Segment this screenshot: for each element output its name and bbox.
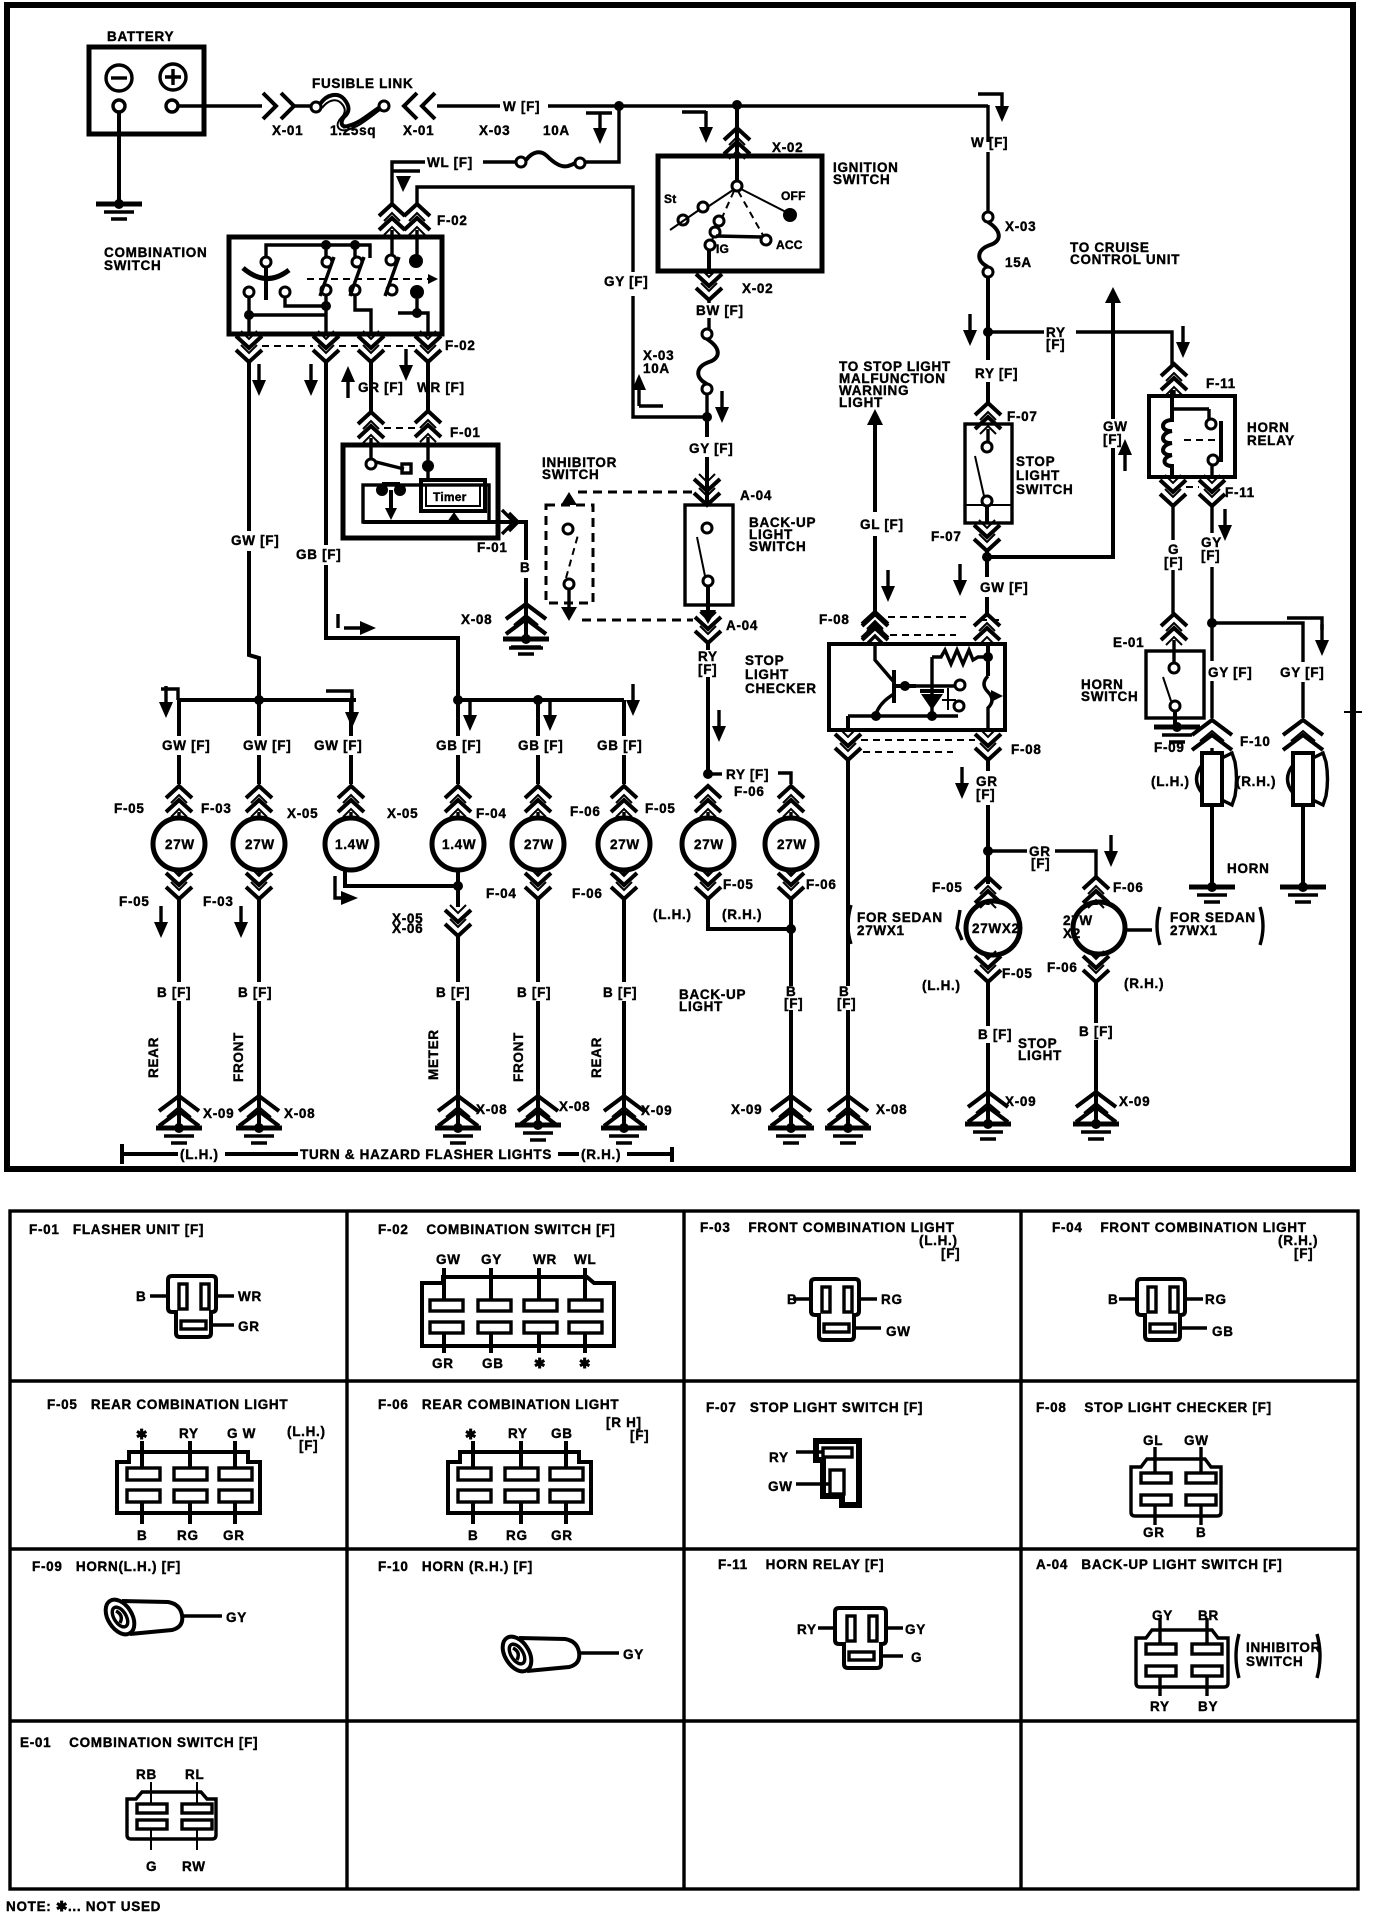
svg-text:X-08: X-08 (876, 1102, 907, 1117)
svg-text:GY: GY (226, 1610, 247, 1625)
svg-text:TURN & HAZARD FLASHER LIGHTS: TURN & HAZARD FLASHER LIGHTS (300, 1147, 552, 1162)
svg-text:GY [F]: GY [F] (1208, 665, 1252, 680)
svg-text:F-05: F-05 (932, 880, 963, 895)
svg-text:X-05: X-05 (387, 806, 418, 821)
G wire (1171, 504, 1174, 614)
svg-text:SWITCH: SWITCH (1016, 482, 1073, 497)
svg-text:B [F]: B [F] (157, 985, 191, 1000)
svg-text:RG: RG (177, 1528, 199, 1543)
svg-text:NOTE: ✱... NOT USED: NOTE: ✱... NOT USED (6, 1899, 161, 1912)
svg-text:F-01: F-01 (450, 425, 481, 440)
svg-text:27W: 27W (694, 837, 724, 852)
svg-text:STOP: STOP (745, 653, 784, 668)
svg-text:LIGHT: LIGHT (1016, 468, 1060, 483)
battery ground wire (117, 112, 121, 204)
svg-text:RL: RL (185, 1767, 204, 1782)
connector F-06 drawing (448, 1441, 591, 1524)
svg-text:F-06: F-06 (570, 804, 601, 819)
lamp meter LH 1.4W (325, 818, 377, 870)
svg-text:F-10 HORN (R.H.) [F]: F-10 HORN (R.H.) [F] (378, 1559, 533, 1574)
wire out bottom (707, 250, 711, 274)
svg-text:RY: RY (1150, 1699, 1170, 1714)
svg-text:27WX2: 27WX2 (972, 921, 1020, 936)
svg-text:X2: X2 (1063, 926, 1081, 941)
svg-text:B [F]: B [F] (603, 985, 637, 1000)
chevrons below (708, 870, 791, 876)
svg-text:GR [F]: GR [F] (358, 380, 403, 395)
exits to bottom (249, 315, 326, 334)
svg-text:LIGHT: LIGHT (839, 395, 883, 410)
svg-text:X-05: X-05 (287, 806, 318, 821)
svg-text:WR [F]: WR [F] (417, 380, 465, 395)
svg-text:F-05: F-05 (723, 877, 754, 892)
svg-text:F-11: F-11 (1206, 376, 1236, 391)
flow arrow below WL corner (392, 169, 420, 172)
lamp meter RH 1.4W (432, 818, 484, 870)
flow arrow up near corner (639, 404, 663, 407)
fusible link (311, 102, 321, 112)
svg-text:B [F]: B [F] (238, 985, 272, 1000)
svg-text:G W: G W (227, 1426, 256, 1441)
svg-text:W [F]: W [F] (503, 99, 540, 114)
svg-text:GY [F]: GY [F] (689, 441, 733, 456)
diode (916, 657, 956, 686)
battery box (89, 47, 204, 134)
svg-text:ACC: ACC (776, 238, 803, 252)
checker box (829, 644, 1005, 730)
lever (243, 268, 289, 279)
connector F-08 drawing (1131, 1447, 1221, 1525)
svg-text:X-08: X-08 (461, 612, 492, 627)
svg-text:A-04: A-04 (726, 618, 758, 633)
svg-text:STOP: STOP (1016, 454, 1055, 469)
svg-text:GW: GW (436, 1252, 461, 1267)
svg-text:SWITCH: SWITCH (542, 467, 599, 482)
svg-text:GR: GR (432, 1356, 454, 1371)
svg-text:RY: RY (179, 1426, 199, 1441)
connector F-05 drawing (117, 1441, 260, 1524)
svg-text:27WX1: 27WX1 (1170, 923, 1218, 938)
X-01 chevron right (263, 93, 294, 119)
right bus GB (458, 700, 624, 784)
svg-text:F-04: F-04 (476, 806, 507, 821)
below chevrons (988, 954, 1096, 958)
svg-text:GW: GW (768, 1479, 793, 1494)
right glyph (984, 676, 992, 730)
svg-text:[F]: [F] (1164, 555, 1183, 570)
svg-text:F-05: F-05 (645, 801, 676, 816)
timer box (421, 480, 485, 511)
svg-text:F-07 STOP LIGHT SWITCH [F]: F-07 STOP LIGHT SWITCH [F] (706, 1400, 923, 1415)
svg-text:BW [F]: BW [F] (696, 303, 744, 318)
svg-text:RG: RG (1205, 1292, 1227, 1307)
svg-text:[F]: [F] (698, 662, 717, 677)
wire WL fuse to corner (483, 160, 516, 163)
svg-text:[F]: [F] (976, 787, 995, 802)
svg-text:27W: 27W (777, 837, 807, 852)
B wire to ground (846, 758, 850, 1085)
svg-text:LIGHT: LIGHT (745, 667, 789, 682)
svg-text:W [F]: W [F] (971, 135, 1008, 150)
svg-text:✱: ✱ (534, 1356, 546, 1371)
connector E-01 drawing (127, 1782, 216, 1850)
ground stop RH X-09 (1189, 882, 1235, 902)
svg-text:B [F]: B [F] (517, 985, 551, 1000)
schematic outer border (7, 5, 1353, 1169)
svg-text:F-06: F-06 (572, 886, 603, 901)
svg-text:X-01: X-01 (272, 123, 303, 138)
GR wire down (986, 758, 990, 884)
ground flasher X-08 (503, 634, 549, 654)
svg-text:B: B (787, 1292, 797, 1307)
wire W to junction (548, 104, 988, 107)
svg-text:GY: GY (481, 1252, 502, 1267)
svg-text:X-02: X-02 (742, 281, 773, 296)
svg-text:RY: RY (508, 1426, 528, 1441)
svg-text:F-10: F-10 (1240, 734, 1271, 749)
wires down (179, 870, 624, 1095)
svg-text:[F]: [F] (837, 996, 856, 1011)
svg-text:F-06: F-06 (1047, 960, 1078, 975)
svg-text:SWITCH: SWITCH (1246, 1654, 1303, 1669)
svg-text:(R.H.): (R.H.) (581, 1147, 621, 1162)
flasher coil (376, 484, 388, 496)
svg-text:GY [F]: GY [F] (604, 274, 648, 289)
contact circles bottom (244, 287, 254, 297)
svg-text:Timer: Timer (433, 490, 467, 504)
chevrons below cols 1 2 5 6 (179, 870, 624, 876)
grounds (159, 1096, 199, 1126)
lamp turn front RH 27W (512, 818, 564, 870)
svg-text:GY: GY (905, 1622, 926, 1637)
svg-text:X-06: X-06 (392, 921, 423, 936)
node RY junction (703, 769, 713, 779)
bottom bus (848, 714, 958, 717)
svg-text:B [F]: B [F] (436, 985, 470, 1000)
svg-text:GB [F]: GB [F] (296, 547, 341, 562)
svg-text:F-07: F-07 (1007, 409, 1038, 424)
flow arrow hook left of junction (586, 111, 612, 114)
horn icon F-10 (497, 1632, 580, 1677)
svg-text:X-08: X-08 (559, 1099, 590, 1114)
svg-text:[F]: [F] (941, 1246, 960, 1261)
svg-text:GW [F]: GW [F] (231, 533, 279, 548)
svg-text:✱: ✱ (465, 1427, 477, 1442)
svg-text:(L.H.): (L.H.) (287, 1424, 326, 1439)
chevron right on output (502, 510, 518, 534)
svg-text:X-09: X-09 (1119, 1094, 1150, 1109)
bottom interconnects (244, 310, 254, 320)
svg-text:F-05: F-05 (1002, 966, 1033, 981)
svg-text:BR: BR (1198, 1608, 1219, 1623)
svg-text:✱: ✱ (579, 1356, 591, 1371)
svg-text:[F]: [F] (1103, 432, 1122, 447)
svg-text:B: B (136, 1289, 146, 1304)
svg-text:F-02 COMBINATION SWITCH [F]: F-02 COMBINATION SWITCH [F] (378, 1222, 615, 1237)
svg-text:F-02: F-02 (445, 338, 476, 353)
svg-text:GY: GY (623, 1647, 644, 1662)
svg-text:1.4W: 1.4W (335, 837, 369, 852)
X-01 chevron left (404, 93, 435, 119)
horn switch box (1146, 651, 1204, 718)
svg-text:INHIBITOR: INHIBITOR (1246, 1640, 1321, 1655)
svg-text:F-05 REAR COMBINATION LIGHT: F-05 REAR COMBINATION LIGHT (47, 1397, 288, 1412)
svg-text:(R.H.): (R.H.) (722, 907, 762, 922)
flow arrows (252, 364, 266, 396)
svg-text:FRONT: FRONT (511, 1032, 526, 1082)
svg-text:RW: RW (182, 1859, 206, 1874)
horn RH symbol (1288, 753, 1328, 805)
svg-text:15A: 15A (1005, 255, 1032, 270)
svg-text:GY [F]: GY [F] (1280, 665, 1324, 680)
svg-text:F-09 HORN(L.H.) [F]: F-09 HORN(L.H.) [F] (32, 1559, 181, 1574)
svg-text:A-04 BACK-UP LIGHT SWITCH [F: A-04 BACK-UP LIGHT SWITCH [F] (1036, 1557, 1282, 1572)
svg-text:1.25sq: 1.25sq (330, 123, 376, 138)
wires to ground (1212, 805, 1303, 887)
lamp turn front LH 27W (233, 818, 285, 870)
svg-text:F-11: F-11 (1225, 485, 1255, 500)
svg-text:GB [F]: GB [F] (597, 738, 642, 753)
svg-text:F-03 FRONT COMBINATION LIGH: F-03 FRONT COMBINATION LIGHT (700, 1220, 955, 1235)
svg-text:(L.H.): (L.H.) (653, 907, 692, 922)
GY wire left (1210, 504, 1213, 623)
svg-text:GW [F]: GW [F] (980, 580, 1028, 595)
svg-text:GW [F]: GW [F] (243, 738, 291, 753)
svg-text:27W: 27W (165, 837, 195, 852)
lamp turn rear LH 27W (153, 818, 205, 870)
lamp back-up RH 27W (765, 818, 817, 870)
horn LH symbol (1210, 748, 1213, 753)
chevron WR wire (404, 204, 430, 235)
svg-text:X-03: X-03 (479, 123, 510, 138)
svg-text:RY [F]: RY [F] (726, 767, 769, 782)
connector F-02 drawing (422, 1268, 614, 1353)
svg-text:RY: RY (769, 1450, 789, 1465)
svg-text:B [F]: B [F] (978, 1027, 1012, 1042)
svg-text:GL: GL (1143, 1433, 1163, 1448)
svg-text:GB: GB (1212, 1324, 1234, 1339)
chevrons above backup bulbs (695, 786, 721, 817)
switch blades (320, 257, 399, 296)
wires to ground (988, 982, 1096, 1085)
svg-text:RG: RG (506, 1528, 528, 1543)
svg-text:REAR: REAR (146, 1037, 161, 1078)
svg-text:CONTROL UNIT: CONTROL UNIT (1070, 252, 1180, 267)
svg-text:CHECKER: CHECKER (745, 681, 817, 696)
svg-text:(R.H.): (R.H.) (1124, 976, 1164, 991)
svg-text:WR: WR (533, 1252, 557, 1267)
svg-text:✱: ✱ (136, 1427, 148, 1442)
svg-text:SWITCH: SWITCH (749, 539, 806, 554)
connector F-11 drawing (818, 1608, 903, 1668)
svg-text:27W: 27W (245, 837, 275, 852)
svg-text:F-03: F-03 (201, 801, 232, 816)
F-10 chevrons (1192, 720, 1232, 750)
svg-text:B: B (1108, 1292, 1118, 1307)
ground backup X-09 (768, 1123, 814, 1143)
svg-text:E-01: E-01 (1113, 635, 1144, 650)
svg-text:BATTERY: BATTERY (107, 29, 174, 44)
svg-text:(R.H.): (R.H.) (1236, 774, 1276, 789)
svg-text:[F]: [F] (784, 996, 803, 1011)
wire horizontal y=187 (417, 187, 633, 272)
svg-text:X-09: X-09 (1005, 1094, 1036, 1109)
svg-text:F-07: F-07 (931, 529, 962, 544)
svg-text:(L.H.): (L.H.) (1151, 774, 1190, 789)
svg-text:SWITCH: SWITCH (1081, 689, 1138, 704)
svg-text:F-05: F-05 (114, 801, 145, 816)
svg-text:X-08: X-08 (476, 1102, 507, 1117)
ignition switch box (658, 156, 822, 271)
svg-text:LIGHT: LIGHT (1018, 1048, 1062, 1063)
flow arrow left of chevron (682, 110, 706, 113)
svg-text:HORN: HORN (1227, 861, 1270, 876)
svg-text:B: B (1196, 1525, 1206, 1540)
svg-text:GR: GR (551, 1528, 573, 1543)
resistor (932, 650, 988, 664)
svg-text:F-02: F-02 (437, 213, 468, 228)
entries from top (392, 238, 417, 256)
svg-text:SWITCH: SWITCH (104, 258, 161, 273)
WL fuse (575, 158, 585, 168)
bottom arrow and dashed wire (567, 589, 570, 608)
svg-text:F-08: F-08 (1011, 742, 1042, 757)
svg-text:E-01 COMBINATION SWITCH [F]: E-01 COMBINATION SWITCH [F] (20, 1735, 258, 1750)
svg-text:GW: GW (886, 1324, 911, 1339)
wire from junction down to WL fuse (584, 106, 619, 162)
connector F-04 drawing (1119, 1279, 1207, 1340)
svg-text:GR: GR (223, 1528, 245, 1543)
combination switch box (229, 237, 442, 334)
stop light switch box (965, 424, 1012, 523)
svg-text:[F]: [F] (1031, 856, 1050, 871)
svg-text:REAR: REAR (589, 1037, 604, 1078)
svg-text:RY [F]: RY [F] (975, 366, 1018, 381)
svg-text:F-03: F-03 (203, 894, 234, 909)
svg-text:10A: 10A (643, 361, 670, 376)
wire GW down (249, 362, 259, 700)
contact circles top (261, 257, 271, 267)
ground under horn switch (1154, 722, 1200, 742)
svg-text:(L.H.): (L.H.) (922, 978, 961, 993)
wire to W label (437, 104, 500, 107)
svg-text:X-01: X-01 (403, 123, 434, 138)
svg-text:27WX1: 27WX1 (857, 923, 905, 938)
svg-text:F-04 FRONT COMBINATION LIGH: F-04 FRONT COMBINATION LIGHT (1052, 1220, 1307, 1235)
ground stop LH X-09 (965, 1119, 1011, 1139)
border tick (1344, 711, 1362, 713)
battery minus terminal (106, 65, 132, 91)
ignition contacts (732, 181, 742, 191)
timer output (447, 512, 461, 522)
flow arrows below cols 1 2 (154, 906, 168, 938)
svg-text:F-05: F-05 (119, 894, 150, 909)
horn relay box (1149, 396, 1235, 477)
connector F-03 drawing (793, 1279, 881, 1340)
svg-text:RG: RG (881, 1292, 903, 1307)
wire down to backup switch (705, 417, 709, 505)
svg-text:27W: 27W (610, 837, 640, 852)
svg-text:GB [F]: GB [F] (518, 738, 563, 753)
svg-text:F-06: F-06 (1113, 880, 1144, 895)
relay coil (1163, 390, 1172, 477)
svg-text:GW [F]: GW [F] (162, 738, 210, 753)
svg-text:St: St (664, 192, 676, 206)
svg-text:F-06: F-06 (806, 877, 837, 892)
svg-text:F-11 HORN RELAY [F]: F-11 HORN RELAY [F] (718, 1557, 884, 1572)
below relay chevrons (1160, 475, 1186, 506)
col3 joins col4 (345, 870, 458, 886)
svg-text:BY: BY (1198, 1699, 1218, 1714)
svg-text:X-02: X-02 (772, 140, 803, 155)
svg-text:GB: GB (551, 1426, 573, 1441)
inner top bus (266, 245, 370, 258)
wires GR WR down to F-01 (371, 362, 428, 412)
svg-text:GB [F]: GB [F] (436, 738, 481, 753)
svg-text:WR: WR (238, 1289, 262, 1304)
svg-text:GR: GR (238, 1319, 260, 1334)
svg-text:GL [F]: GL [F] (860, 517, 904, 532)
svg-text:FRONT: FRONT (231, 1032, 246, 1082)
svg-text:F-09: F-09 (1154, 740, 1185, 755)
svg-text:(L.H.): (L.H.) (180, 1147, 219, 1162)
inhibitor dashed box (546, 505, 593, 603)
battery plus terminal (160, 64, 186, 90)
svg-text:SWITCH: SWITCH (833, 172, 890, 187)
ground horn switch (156, 1123, 202, 1143)
svg-text:LIGHT: LIGHT (679, 999, 723, 1014)
horn icon F-09 (100, 1595, 183, 1640)
wire battery+ to fusible link (178, 104, 262, 107)
svg-text:10A: 10A (543, 123, 570, 138)
svg-text:X-09: X-09 (203, 1106, 234, 1121)
top arrow and dashed wire (561, 492, 577, 505)
svg-text:GY: GY (1152, 1608, 1173, 1623)
connector F-07 drawing (796, 1441, 859, 1505)
flasher unit box (343, 445, 498, 538)
GB hook arrow (336, 614, 339, 628)
svg-text:B: B (468, 1528, 478, 1543)
svg-text:G: G (911, 1650, 922, 1665)
battery posts (113, 100, 125, 112)
back-up light switch box (685, 505, 733, 605)
svg-text:RB: RB (136, 1767, 157, 1782)
svg-text:RELAY: RELAY (1247, 433, 1295, 448)
svg-text:FUSIBLE LINK: FUSIBLE LINK (312, 76, 413, 91)
svg-text:F-08 STOP LIGHT CHECKER [F]: F-08 STOP LIGHT CHECKER [F] (1036, 1400, 1272, 1415)
join wires (708, 899, 791, 1085)
svg-text:B [F]: B [F] (1079, 1024, 1113, 1039)
svg-text:G: G (146, 1859, 157, 1874)
svg-text:X-08: X-08 (284, 1106, 315, 1121)
svg-text:WL: WL (574, 1252, 596, 1267)
wire GB down (326, 362, 458, 700)
ground checker X-08 (825, 1123, 871, 1143)
svg-text:A-04: A-04 (740, 488, 772, 503)
lamp stop LH 27WX2 (966, 901, 1020, 955)
ground X-09 backup (771, 1096, 811, 1126)
svg-text:X-09: X-09 (641, 1103, 672, 1118)
svg-text:[F]: [F] (1201, 548, 1220, 563)
connector A-04 drawing (1136, 1618, 1228, 1696)
lamp turn rear RH 27W (598, 818, 650, 870)
transistor (875, 644, 893, 681)
inhibitor note (1236, 1634, 1239, 1678)
svg-text:F-04: F-04 (486, 886, 517, 901)
node: junction at 619 (614, 101, 624, 111)
left bus GW (179, 700, 356, 784)
svg-text:GW [F]: GW [F] (314, 738, 362, 753)
